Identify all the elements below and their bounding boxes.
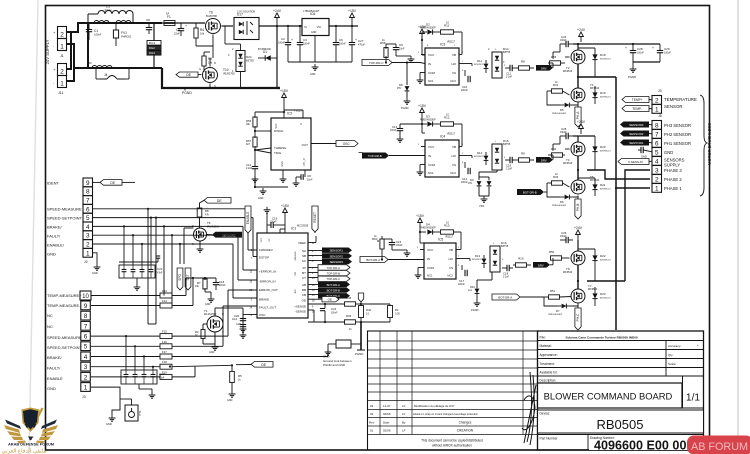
capacitor bank C23 box [121,370,157,384]
svg-text:D24: D24 [246,55,252,59]
svg-text:PGND: PGND [182,91,192,95]
svg-text:VO: VO [317,25,322,29]
label VSS ch2 [479,195,489,197]
dots bus [147,208,149,210]
svg-text:ENABLE/: ENABLE/ [47,243,65,248]
svg-text:BOT: BOT [295,288,297,293]
driver IC3 [425,48,459,85]
zener D24 [236,51,245,72]
C23 riser 3 [143,357,145,371]
svg-text:DG1: DG1 [149,41,156,45]
capacitor C6 [335,26,337,42]
svg-text:BZV85C15: BZV85C15 [600,188,611,190]
svg-text:COM: COM [427,266,435,270]
svg-text:1: 1 [60,44,64,51]
svg-text:BZV85C15: BZV85C15 [600,58,611,60]
svg-text:5A: 5A [166,12,169,16]
svg-text:NC1: NC1 [428,171,434,175]
svg-text:TS555: TS555 [294,109,302,113]
svg-text:PMEG4050EP: PMEG4050EP [548,314,563,316]
wire R7 C18 top [196,277,216,279]
wire T10 drain [209,58,211,67]
svg-text:PMEG4050EP: PMEG4050EP [552,205,567,207]
svg-text:RB0505: RB0505 [597,417,644,432]
capacitor C4 polarized [180,23,182,28]
connector J5 pin 4 [81,352,91,361]
svg-text:Changes: Changes [459,421,472,425]
svg-text:TOP-DR-C: TOP-DR-C [369,61,384,65]
diode D7 [562,304,567,309]
logo center mark [28,437,34,441]
flag DE to T10 gate [176,72,198,77]
svg-text:BRAKE/: BRAKE/ [47,225,63,230]
wire pin6 run low [91,335,160,337]
svg-text:By: By [402,421,406,425]
resistor R2 [203,323,207,325]
transil DG1 [147,41,161,46]
svg-text:F17: F17 [162,350,167,354]
flag SPEED vertical 1 [177,268,183,290]
zener D23 [592,293,597,298]
C23 cap 3 [142,374,147,376]
svg-text:L78M15ACDT: L78M15ACDT [303,9,320,13]
connector J5 pin 8 [81,311,91,320]
wire T5 top to phase [577,170,579,180]
wire D1 vertical to +24v [276,26,278,58]
svg-text:D7: D7 [556,309,560,313]
svg-text:PMEG4050EP: PMEG4050EP [420,227,436,230]
svg-text:100uF: 100uF [664,51,671,54]
capacitor C9 [395,44,397,47]
svg-text:ERROR_OUT: ERROR_OUT [259,288,278,292]
svg-text:D5: D5 [560,108,564,112]
flag BOT-DR-C out [318,293,350,298]
svg-text:C25: C25 [561,127,567,131]
wire t8 drain left [193,227,200,229]
mosfet T5 [571,180,585,194]
wire +sense row [308,303,345,305]
svg-text:BRAKE/: BRAKE/ [47,355,63,360]
resistor R7 [204,278,206,280]
svg-text:SENSOR2: SENSOR2 [330,254,344,258]
capacitor C14 [464,162,466,168]
svg-text:SENSOR: SENSOR [664,104,683,109]
connector J3 pin 1 [652,105,662,114]
svg-text:without AIROX authorisation: without AIROX authorisation [432,444,472,448]
wire -sense row [308,321,345,323]
svg-text:PMEG4050EP: PMEG4050EP [420,119,436,122]
flag vertical ENABLE [245,206,251,233]
choke winding top [94,21,109,24]
svg-text:+15V: +15V [348,9,357,13]
svg-text:100nF: 100nF [560,132,567,134]
svg-text:Available for:: Available for: [540,371,558,375]
svg-text:+: + [355,38,357,42]
svg-text:SPEED-MEASURE: SPEED-MEASURE [47,335,82,340]
connector J6 pin 6 [652,139,662,148]
wire C20b top [228,307,243,309]
wire +24V rail to IC6 [277,25,302,27]
zener D20 [592,146,597,151]
wire pin5 run low [91,345,160,347]
varistor FV1 [115,23,117,30]
svg-text:NC: NC [47,324,53,329]
svg-text:GND: GND [227,399,233,402]
svg-text:BZX: BZX [468,290,473,292]
svg-text:DE: DE [217,199,222,203]
svg-text:3: 3 [84,364,88,371]
wire phase A out [578,76,616,78]
wire C24 loop [559,44,561,52]
capacitor C17 [461,265,463,270]
power +24V rail ch3 [577,234,579,240]
svg-text:4k7: 4k7 [246,143,251,146]
svg-text:SENSOR3: SENSOR3 [629,123,644,127]
svg-text:2: 2 [60,32,64,39]
C22 gnd [136,278,138,284]
svg-text:VB: VB [452,53,456,57]
svg-text:Qty:: Qty: [668,353,674,357]
svg-text:NC: NC [47,313,53,318]
svg-text:C15: C15 [396,240,402,244]
svg-text:PHASE 1: PHASE 1 [664,186,682,191]
wire T6 gate down [212,35,214,59]
svg-text:03: 03 [370,404,374,408]
wire pin5 run [93,217,254,219]
capacitor C12 [254,150,256,166]
svg-text:7: 7 [655,131,659,138]
wire pin4 run low [91,356,160,358]
svg-text:BZT55: BZT55 [503,51,511,54]
svg-text:R8: R8 [205,209,209,213]
svg-text:2.2nF: 2.2nF [503,276,510,279]
svg-text:GND: GND [205,303,211,306]
svg-text:F14: F14 [162,299,167,303]
wire T4 drain to phase B [577,156,579,170]
flag TOP-DR-C out2 [318,276,350,281]
connector J5 pin 9 [81,301,91,310]
svg-text:VS: VS [452,163,456,167]
svg-text:C9: C9 [399,43,403,47]
svg-text:+ERROR_IN: +ERROR_IN [259,270,276,274]
wire R60 C15 top [382,238,392,240]
svg-text:T8: T8 [207,221,211,225]
svg-text:BLOWER COMMAND BOARD: BLOWER COMMAND BOARD [544,391,673,402]
title col right [665,341,667,377]
svg-text:File:: File: [540,336,546,340]
flag TOP-DR-B out2 [318,270,350,275]
capacitor C16 [509,157,511,163]
ground for link [327,349,329,352]
cell 1/1 [682,377,684,409]
optocoupler D17 [234,18,259,40]
svg-text:IN: IN [427,257,430,261]
svg-text:J11: J11 [58,91,64,95]
svg-text:+SENSE: +SENSE [294,305,306,309]
svg-text:F13: F13 [162,289,167,293]
power +15V arrow IC5 [419,222,421,228]
svg-text:OSC: OSC [259,313,266,317]
svg-text:R40: R40 [366,308,372,312]
flag PHASE-B vertical [575,199,581,219]
svg-text:C24: C24 [561,35,567,39]
svg-text:OE: OE [328,298,332,302]
wire T1 source gnd [214,332,216,340]
svg-text:1: 1 [86,250,90,257]
shunt R40 [359,306,364,318]
svg-text:R1: R1 [395,308,399,312]
diode D4 [420,231,426,233]
wire R56 top [255,111,284,113]
ground R5b [231,391,233,394]
svg-text:BB: BB [302,288,306,292]
mosfet T7 [571,289,585,303]
filter F19 [160,374,172,379]
svg-text:DRV: DRV [541,66,547,70]
svg-text:IR2117: IR2117 [447,132,456,136]
C22 riser 1 [123,226,125,265]
svg-text:220nF: 220nF [219,285,226,287]
wire pin2 run [93,243,234,245]
svg-text:C26: C26 [561,231,567,235]
resistor R4 [195,23,197,28]
flag SENSOR2 t8 [212,232,242,238]
resistor R60 [377,240,379,242]
wire phase C stub [587,280,625,282]
flag PHASE-A vertical [575,107,581,127]
flag DE t8 [204,198,231,204]
connector J5 pin 5 [81,342,91,351]
svg-text:V-SENS-M: V-SENS-M [628,160,643,164]
svg-text:VCC: VCC [261,237,263,242]
svg-text:0.05: 0.05 [395,312,400,315]
IC1 top pins [266,225,268,233]
svg-text:2: 2 [86,242,90,249]
svg-text:D: D [222,313,224,316]
resistor R50 [551,256,562,260]
svg-text:470uF: 470uF [358,43,365,46]
wire vref stub [308,242,316,244]
svg-text:BOT-DR-B: BOT-DR-B [327,289,340,293]
strap J4 [100,78,107,80]
svg-text:T10: T10 [223,68,229,72]
logo head marks [25,424,30,429]
wire pin3 run low [91,366,160,368]
svg-text:4: 4 [84,354,88,361]
svg-text:VCC: VCC [427,248,434,252]
svg-text:ARAB DEFENSE FORUM: ARAB DEFENSE FORUM [8,442,54,447]
svg-text:+: + [697,343,699,347]
svg-text:AT: AT [302,266,306,270]
description box [538,383,683,408]
mosfet T4 [571,142,585,156]
svg-text:R50: R50 [549,250,555,254]
svg-text:DRV: DRV [538,263,544,267]
logo wing left [5,420,21,430]
sensor flag group wires [308,250,322,252]
connector J6 pin 4 [652,157,662,166]
capacitor C26 [565,237,567,243]
svg-text:+: + [625,46,627,50]
svg-text:BUZ0786: BUZ0786 [206,14,218,18]
svg-text:BZT55: BZT55 [501,245,509,248]
svg-text:VS: VS [452,71,456,75]
power +15V arrow IC3 [421,33,423,40]
svg-text:R38: R38 [346,296,352,300]
svg-text:TEMPERATURE: TEMPERATURE [664,97,697,102]
capacitor C27 [351,26,353,42]
wire filter bottom rail [88,67,162,69]
choke winding bottom [92,66,112,69]
svg-text:C2: C2 [281,37,285,41]
filter F15 [160,334,172,339]
svg-text:24V SUPPLY: 24V SUPPLY [45,39,50,64]
zener D11 [484,64,489,69]
svg-text:ENABLE: ENABLE [47,376,63,381]
svg-text:NC2: NC2 [450,171,456,175]
thermistor PT1 [125,405,138,421]
svg-text:DE: DE [261,363,266,367]
svg-text:04/06: 04/06 [383,412,391,416]
signature scribble [522,372,536,445]
svg-text:MC33035: MC33035 [297,224,309,228]
svg-text:Description:: Description: [540,379,557,383]
svg-text:1: 1 [655,106,659,113]
mosfet T2 [571,50,585,64]
svg-text:PGND and GND: PGND and GND [323,363,346,367]
wire pin10 run [91,295,160,297]
svg-text:OE: OE [302,299,306,303]
svg-text:3: 3 [655,167,659,174]
svg-text:SA: SA [302,249,306,253]
svg-text:VCC: VCC [428,145,435,149]
power +24V arrow [276,17,278,26]
wire cap common [288,61,352,63]
svg-text:D21: D21 [600,183,606,187]
svg-text:D: D [214,61,216,65]
capacitor C21 [324,304,326,308]
mosfet T9 [571,251,585,265]
flag SENSOR2 [620,131,649,137]
svg-text:2: 2 [655,97,659,104]
ground C13 [399,136,401,139]
svg-text:C: C [636,142,638,146]
flag DE pin9 [93,181,101,183]
svg-text:Added L1, strap on J4 and chan: Added L1, strap on J4 and changed overvo… [413,413,479,416]
svg-text:IRF9540: IRF9540 [563,162,573,165]
capacitor C25 [565,133,567,139]
svg-text:PGND: PGND [628,75,636,79]
wire T2 source to rail [577,44,579,50]
svg-text:Part Number: Part Number [540,437,559,441]
vert drop x172 [171,235,173,305]
connector J5 pin 6 [81,332,91,341]
svg-text:+: + [185,24,187,28]
svg-text:BYW98/100: BYW98/100 [258,48,271,51]
vert drop x180 [179,244,181,264]
title row treatment [538,367,704,369]
choke winding top2 [116,21,131,24]
svg-text:D18: D18 [600,53,606,57]
svg-text:PH3 SENSOR: PH3 SENSOR [664,123,691,128]
resistor R32 [552,153,563,157]
flag TEMP+ [622,97,649,103]
wire PGND heavy [360,322,362,350]
svg-text:D9: D9 [470,178,474,182]
resistor R5b [231,365,233,371]
revision table outline [368,331,538,450]
svg-text:BRAKE: BRAKE [259,298,269,302]
zener D21 [592,184,597,189]
svg-text:FAULT/: FAULT/ [47,366,61,371]
power +24V rail ch2 [580,128,582,134]
wire IN IC4 [389,155,425,157]
svg-text:100nF: 100nF [303,42,310,45]
svg-text:SPEED-MEASURE: SPEED-MEASURE [47,207,82,212]
wire drv to R55 [552,63,554,68]
connector J2 pin 1 [83,248,93,257]
svg-text:Accuracy:: Accuracy: [668,344,681,348]
flag BOT-DR-A input [492,294,520,300]
svg-text:3,3V ISOLATION: 3,3V ISOLATION [237,10,255,13]
svg-text:15V: 15V [397,88,402,90]
connector J2 pin 4 [83,222,93,231]
svg-text:10k: 10k [200,31,205,35]
svg-text:NC2: NC2 [447,274,453,278]
bus pin6 into FWD/REV [247,233,249,250]
svg-text:C4: C4 [176,28,180,32]
logo gold tick [34,408,44,425]
svg-text:D13: D13 [475,254,481,258]
svg-text:NC1: NC1 [428,79,434,83]
svg-text:PH-B: PH-B [576,204,580,212]
mosfet T1 small [207,316,223,332]
wire shunt bottom rail [361,321,390,323]
svg-text:1: 1 [60,81,64,88]
capacitor C24 [565,41,567,47]
wire C28 C29 gnd [633,61,660,63]
resistor R39 [345,320,356,324]
svg-text:FAULT_OUT: FAULT_OUT [259,306,276,310]
svg-text:100nF: 100nF [396,245,403,247]
svg-text:VCC: VCC [428,53,435,57]
ground pt1 left [111,415,113,418]
svg-text:4: 4 [86,224,90,231]
wire D17 to +24V node [259,25,277,27]
svg-text:R19: R19 [518,257,524,261]
svg-text:100nF: 100nF [390,130,397,132]
transistor T6 [206,19,221,34]
wire T6 drain to D17 [222,25,234,27]
svg-text:C13: C13 [392,125,398,129]
svg-text:CTL_V: CTL_V [303,158,306,166]
capacitor C18b [215,278,217,282]
C22 cap 3 [140,269,145,271]
svg-text:R51: R51 [550,289,556,293]
vert drop x164 [163,226,165,295]
svg-text:F16: F16 [162,340,167,344]
svg-text:F50: F50 [87,61,92,65]
svg-text:6: 6 [84,334,88,341]
svg-text:COM: COM [428,163,436,167]
svg-text:PGND: PGND [471,308,479,312]
connector J5 pin 7 [81,321,91,330]
capacitor bank C22 box [119,265,155,278]
flag OSC out [336,141,358,147]
connector J1 pin 1 [58,39,67,51]
flag BOT-DR-B out [318,287,350,292]
svg-text:2.2nF: 2.2nF [246,167,253,170]
